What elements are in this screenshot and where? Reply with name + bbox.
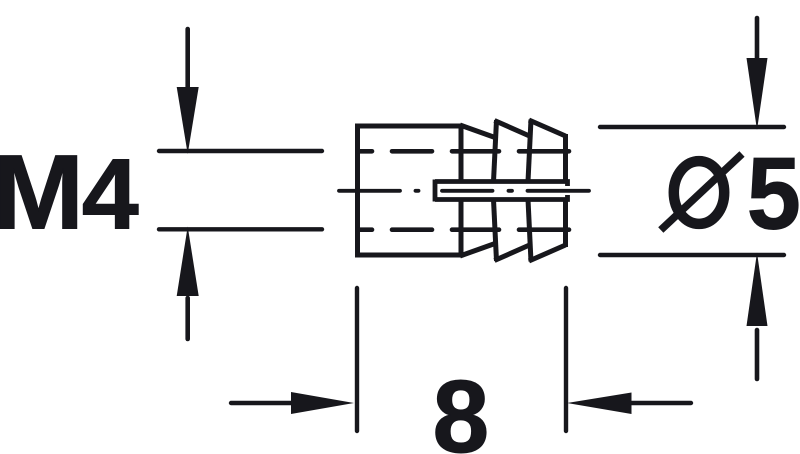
barb 3 left edge upper <box>528 120 531 182</box>
barb 3 left edge lower <box>528 200 531 262</box>
thread line upper (dashed) <box>358 149 569 154</box>
dimension arrow M4 top (down) <box>177 29 199 154</box>
extension line diameter lower <box>600 253 784 257</box>
drive slot top line <box>435 182 568 187</box>
drive slot closed end <box>433 180 438 202</box>
sleeve body outline <box>358 126 462 255</box>
svg-text:8: 8 <box>433 359 490 454</box>
dimension arrow diameter bottom (up) <box>747 253 768 380</box>
extension line length right <box>564 288 568 431</box>
barb 3 top diagonal <box>529 120 566 136</box>
barb right edge lower <box>563 198 568 248</box>
dimension arrow length right (left-pointing) <box>567 393 691 415</box>
centerline (dash-dot axis) <box>339 189 589 193</box>
thread line lower (dashed) <box>358 227 569 232</box>
barb 2 top diagonal <box>495 121 530 137</box>
barb 1 top diagonal <box>460 125 495 138</box>
svg-text:5: 5 <box>747 137 800 251</box>
extension line length left <box>355 288 359 431</box>
dimension arrow diameter top (down) <box>747 18 768 130</box>
dimension arrow M4 bottom (up) <box>177 227 199 340</box>
diameter symbol slash <box>661 154 742 230</box>
barb right edge upper <box>563 134 568 184</box>
svg-text:4: 4 <box>82 139 139 251</box>
dimension arrow length left (right-pointing) <box>231 392 354 414</box>
drive slot bottom line <box>435 195 568 200</box>
extension line M4 lower <box>159 227 322 231</box>
extension line diameter upper <box>600 125 784 129</box>
svg-text:M: M <box>0 132 84 251</box>
barb 2 bottom diagonal <box>495 245 530 261</box>
extension line M4 upper <box>159 149 322 153</box>
barb 2 left edge lower <box>494 200 497 262</box>
diameter symbol circle <box>674 161 724 224</box>
barb 2 left edge upper <box>494 120 497 182</box>
barb 3 bottom diagonal <box>529 245 566 261</box>
barb 1 bottom diagonal <box>460 244 495 257</box>
